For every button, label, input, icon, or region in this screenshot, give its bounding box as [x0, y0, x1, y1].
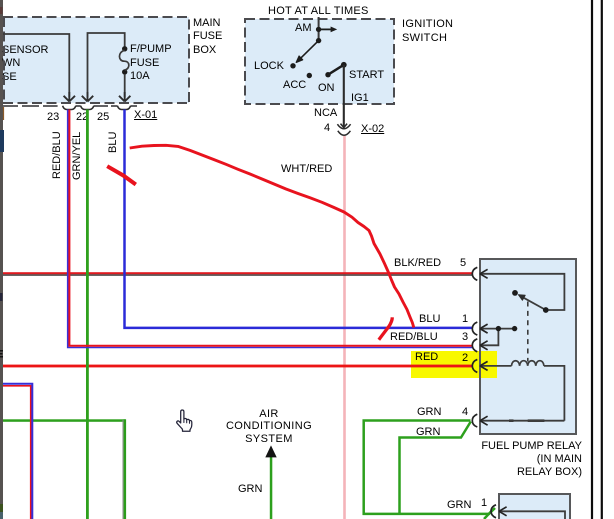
sidebar dark green block [0, 504, 3, 512]
text: GRN and pin 1 (box 2) [447, 499, 471, 513]
text: 23 [47, 111, 59, 125]
wire IG1 [343, 65, 345, 128]
text: MAIN FUSE BOX [193, 17, 222, 58]
text: 25 [97, 111, 109, 125]
sidebar teal block [0, 512, 3, 519]
wire: RED/BLU pin 23 to relay pin 3 [68, 110, 472, 348]
arrows into X-01 (pins 23, 22, 25) [64, 92, 131, 102]
relay internal: pin 5 path to switch pivot [480, 274, 564, 421]
text: BLU and pin 1 [419, 313, 440, 327]
text: HOT AT ALL TIMES [268, 5, 369, 19]
sidebar maroon tick [0, 7, 3, 14]
X-01 connector bar (lower dashed line with pin cups) [3, 105, 137, 107]
wire: GRN vertical (a/c branch drop) [123, 420, 124, 519]
contact LOCK [290, 63, 295, 68]
node AM (dot with right arrow) [316, 27, 321, 32]
wire: WHT/RED annotation curve [130, 145, 414, 327]
fuse F/PUMP 10A [122, 46, 127, 51]
text: X-01 [134, 109, 157, 123]
ignition switch box [245, 19, 394, 104]
text: 4 (X-02 pin) [324, 122, 330, 136]
text: AM [295, 22, 312, 36]
text: GRN lower wire [416, 426, 440, 440]
arrow to air conditioning system [265, 445, 276, 457]
left edge text fragment E [0, 351, 3, 357]
left edge text fragment V [0, 293, 2, 301]
text: IG1 [351, 92, 369, 106]
mouse cursor (hand pointer) [177, 410, 192, 431]
text: SENSOR / WN / SE (clipped words) [2, 44, 48, 85]
main fuse box [3, 17, 189, 103]
text: BLU vertical label [107, 130, 121, 153]
text: RED/BLU vertical label [51, 129, 65, 179]
text: 22 [76, 111, 88, 125]
relay 2 internal wire [499, 511, 565, 519]
wire: GRN air conditioning drop [270, 457, 273, 519]
fuel pump relay box border [480, 259, 576, 434]
brown tick below fuse box [3, 107, 4, 120]
annotation slash 2 [379, 317, 393, 339]
relay switch contact dots [512, 290, 518, 296]
text: GRN/YEL vertical label [71, 130, 85, 180]
ignition switch feed wire [318, 17, 320, 40]
fuel pump relay box [479, 258, 577, 435]
wire: RED to pin 2 [3, 365, 472, 368]
relay dashed actuator link [527, 302, 529, 362]
relay switch arm arrowhead [518, 295, 525, 301]
yellow highlight on RED wire [411, 351, 497, 378]
left sidebar edge [0, 0, 3, 519]
relay 2 pin 1 bracket and arrowhead [491, 505, 507, 518]
wire: BLU/RED bottom left corner [3, 386, 31, 519]
page border double line [591, 0, 593, 519]
text: RED/BLU and pin 3 [390, 331, 438, 345]
wire: BLU pin 25 to relay pin 1 [125, 110, 473, 328]
wire: fuse feed inside fuse box [88, 33, 125, 97]
text: START [349, 69, 384, 83]
wire: GRN to relay pin 4 (upper) [364, 421, 495, 514]
relay pin brackets and arrowheads (pins 5,1,3,2,4) [472, 267, 487, 427]
text: FUEL PUMP RELAY (IN MAIN RELAY BOX) [430, 440, 582, 480]
text: ON [318, 82, 335, 96]
wire: GRN left horizontal (a/c branch) [3, 419, 126, 422]
text: GRN (a/c wire) [238, 483, 262, 497]
annotation slash 1 [107, 166, 136, 184]
text: BLK/RED and pin 5 [394, 257, 441, 271]
wire: sensor feed inside fuse box [3, 34, 69, 97]
ignition switch box dashed border [245, 19, 394, 104]
main fuse box dashed border [3, 17, 189, 103]
text: IGNITION SWITCH [402, 18, 453, 45]
text: WHT/RED [281, 163, 332, 177]
text: AIR CONDITIONING SYSTEM [199, 408, 339, 446]
relay box 2 (bottom, cut off) [498, 493, 571, 519]
wire: GRN/YEL pin 22 vertical [86, 110, 89, 519]
connector X-02 (inline connector symbol) [341, 124, 348, 128]
text: LOCK [254, 60, 284, 74]
sidebar navy block [0, 130, 4, 152]
wire: BLK/RED to pin 5 [3, 272, 472, 274]
contact START with arm from ON [341, 62, 347, 68]
text: ACC [283, 79, 306, 93]
contact ACC [307, 73, 312, 78]
contact ON [325, 72, 330, 77]
wire: NCA pink continuation [343, 136, 346, 519]
text: F/PUMP FUSE 10A [130, 43, 172, 84]
wire: GRN stub to bottom edge [484, 511, 492, 519]
text: RED and pin 2 [415, 351, 438, 365]
text: NCA [314, 107, 337, 121]
text: GRN and pin 4 [417, 406, 441, 420]
text: X-02 [361, 123, 384, 137]
relay coil [512, 361, 544, 366]
wire: GRN lower branch to pin 4 [400, 422, 471, 515]
ignition switch wiper arrow to LOCK [316, 38, 321, 43]
